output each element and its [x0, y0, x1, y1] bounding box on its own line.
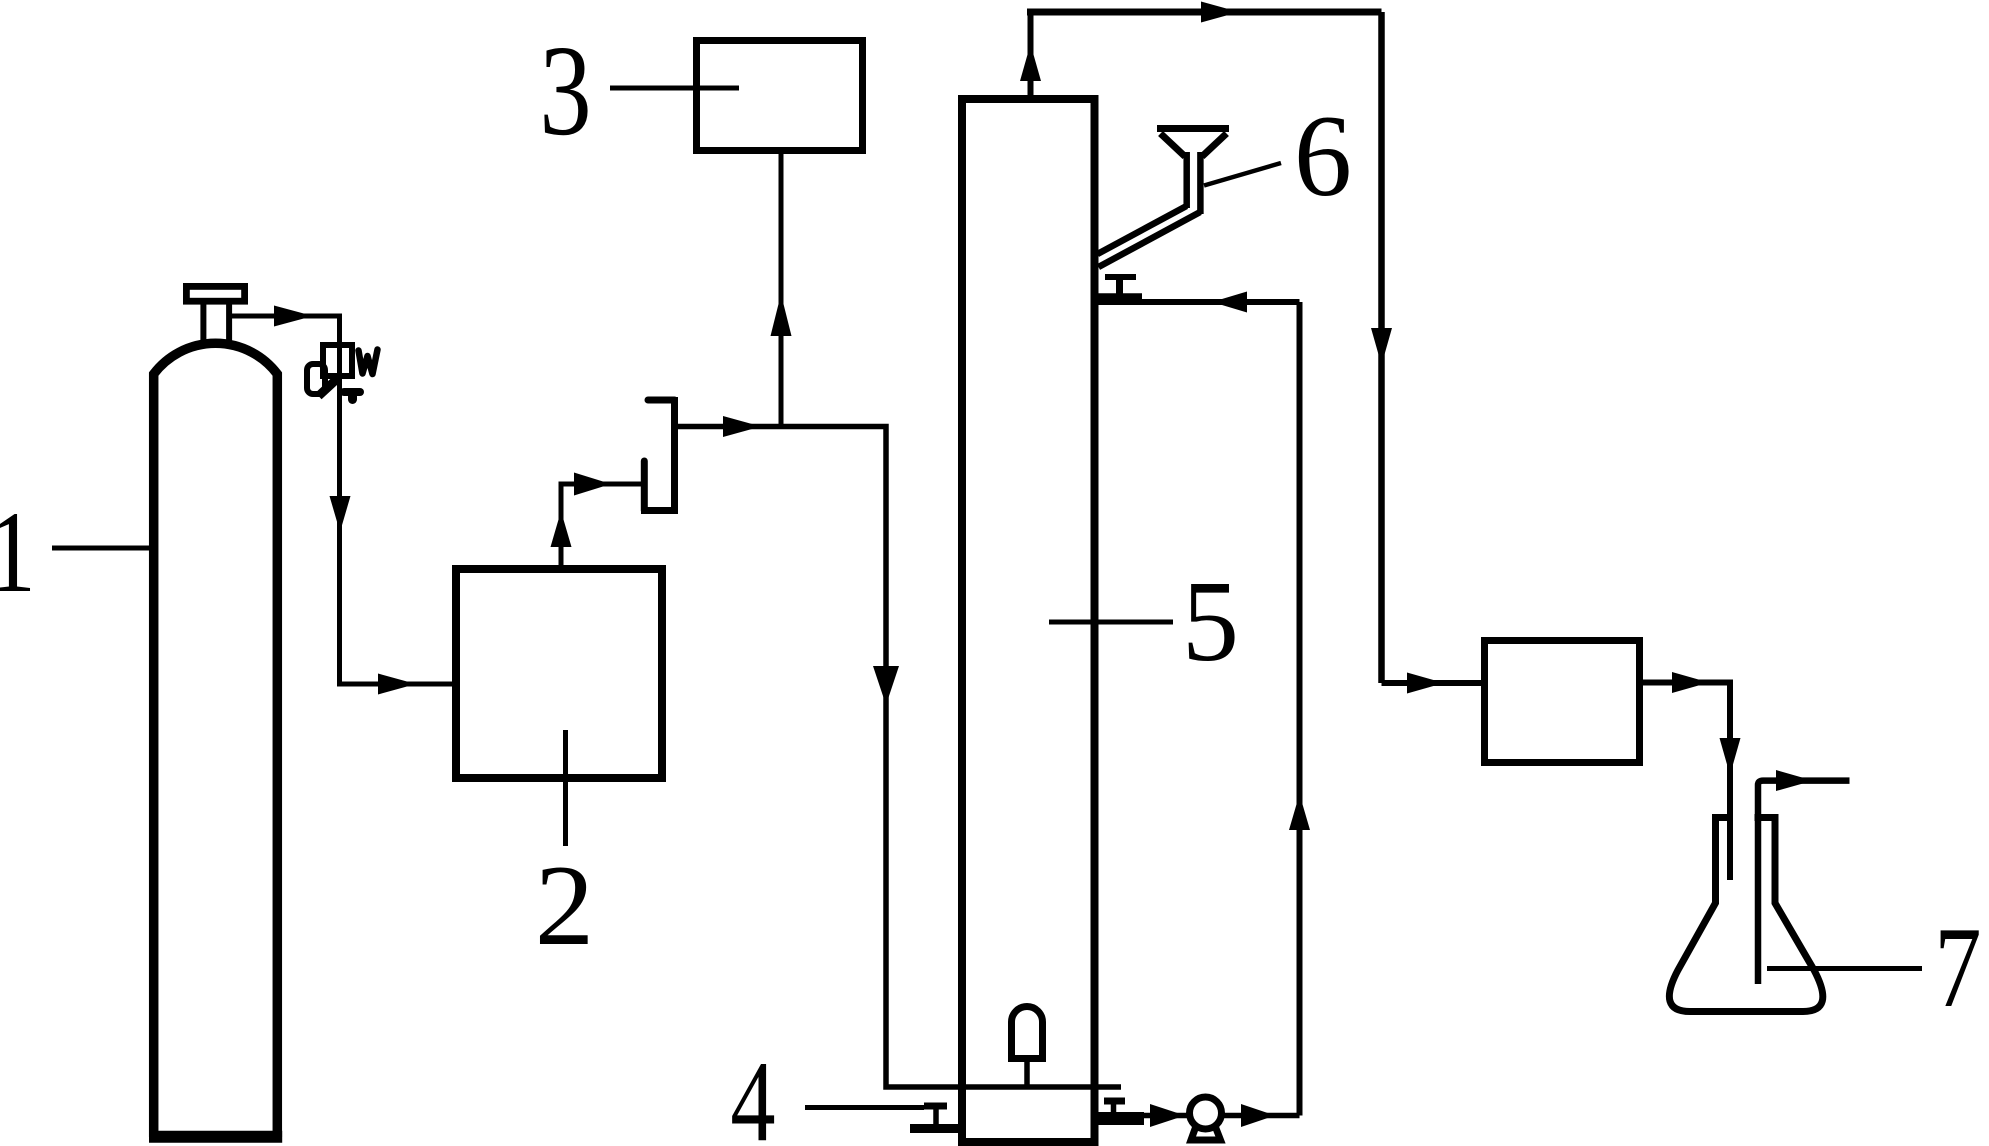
funnel valve tick [1105, 274, 1136, 280]
funnel diagonal tube inner [1099, 212, 1201, 267]
leader line 4 [805, 1105, 924, 1110]
svg-text:3: 3 [539, 18, 591, 162]
wire bottle outlet to junction and down to column base [678, 427, 1121, 1088]
box 2 [456, 569, 662, 778]
arrow right on bottle outlet [723, 416, 761, 437]
arrow left on recycle top line [1212, 292, 1247, 313]
svg-text:7: 7 [1934, 903, 1981, 1031]
gas cylinder 1 bottom [149, 1131, 282, 1143]
funnel cone left [1161, 134, 1186, 157]
base left valve tick [924, 1103, 947, 1110]
label 3 [539, 18, 591, 162]
cylinder valve cap [186, 286, 244, 301]
regulator outlet tick vertical [348, 393, 357, 400]
bottom outlet line [1144, 1113, 1300, 1119]
funnel cone right [1202, 134, 1227, 157]
regulator upper square [323, 345, 352, 376]
regulator diagonal [319, 378, 339, 397]
svg-text:2: 2 [535, 843, 594, 970]
leader line 5 [1049, 620, 1173, 625]
leader line 2 [563, 730, 568, 846]
arrow up on box 2 riser [551, 511, 572, 547]
leader line 6 [1204, 163, 1281, 186]
arrow right at regulator top [274, 306, 313, 327]
right drop line [1378, 12, 1385, 683]
label 6 [1294, 92, 1352, 221]
base right valve bar [1098, 1112, 1144, 1125]
regulator lower square [307, 364, 325, 394]
flask outlet tube [1758, 781, 1850, 984]
flask 7 body [1669, 818, 1822, 1012]
arrow right on flask outlet [1776, 770, 1813, 791]
pump circle [1190, 1097, 1222, 1129]
funnel valve bar [1097, 293, 1142, 301]
arrow down into flask [1720, 738, 1741, 775]
gas cylinder 1 body [154, 343, 278, 1137]
washing bottle left wall [641, 461, 648, 511]
base left valve stem [933, 1109, 939, 1125]
sparger stem [1024, 1062, 1030, 1087]
arrow down on regulator drop line [330, 496, 351, 532]
wire to right box [1382, 680, 1482, 686]
recycle riser [1297, 302, 1303, 1116]
label 1 [0, 488, 36, 618]
column 5 [962, 99, 1095, 1142]
arrow right out of right box [1672, 672, 1709, 693]
washing bottle bottom [641, 507, 678, 514]
washing bottle top hook [648, 397, 675, 404]
funnel diagonal tube outer [1098, 206, 1187, 254]
regulator outlet tick horizontal [344, 388, 360, 396]
label 4 [730, 1039, 775, 1146]
arrow right on top line [1201, 2, 1239, 23]
label 5 [1182, 557, 1239, 685]
base left valve bar [910, 1124, 958, 1133]
sparger bulb in column base [1012, 1006, 1043, 1058]
leader line 3 [610, 86, 739, 91]
top vent line [1027, 9, 1382, 16]
leader line 1 [52, 546, 149, 551]
arrow right before pump [1150, 1104, 1185, 1127]
wire right box to flask [1643, 683, 1730, 881]
recycle top line [1098, 299, 1300, 305]
flask 7 right lip [1755, 814, 1779, 821]
funnel valve stem [1116, 279, 1123, 294]
arrow right into box 2 [378, 674, 416, 695]
washing bottle tall tube [671, 397, 678, 511]
box 3 [697, 41, 863, 151]
svg-text:4: 4 [730, 1039, 775, 1146]
label W [359, 350, 378, 375]
base right valve stem [1111, 1104, 1117, 1115]
wire junction to box 3 [779, 154, 784, 427]
label 2 [535, 843, 594, 970]
arrow right into right box [1407, 673, 1444, 694]
arrow down on right drop line [1371, 328, 1392, 365]
arrow down on line to column base [873, 666, 899, 705]
base right valve tick [1104, 1098, 1125, 1105]
funnel stem right [1197, 152, 1204, 214]
cylinder neck left [200, 303, 206, 343]
svg-text:6: 6 [1294, 92, 1352, 221]
svg-text:1: 1 [0, 488, 36, 618]
pump base [1191, 1122, 1221, 1140]
right box [1485, 641, 1640, 763]
flask 7 left lip [1712, 814, 1732, 821]
arrow right after pump [1241, 1104, 1275, 1127]
wire cylinder to box 2 [232, 316, 452, 684]
label 7 [1934, 903, 1981, 1031]
funnel stem left [1183, 152, 1190, 208]
leader line 7 [1767, 966, 1922, 971]
svg-text:5: 5 [1182, 557, 1239, 685]
funnel 6 top bar [1157, 125, 1229, 132]
arrow up on vent riser [1020, 44, 1041, 81]
arrow up to box 3 [771, 294, 792, 336]
column vent riser [1028, 12, 1034, 95]
arrow up on recycle riser [1289, 794, 1310, 830]
arrow right into washing bottle [574, 473, 611, 496]
cylinder neck right [226, 303, 232, 342]
wire box 2 to washing bottle [561, 484, 644, 565]
